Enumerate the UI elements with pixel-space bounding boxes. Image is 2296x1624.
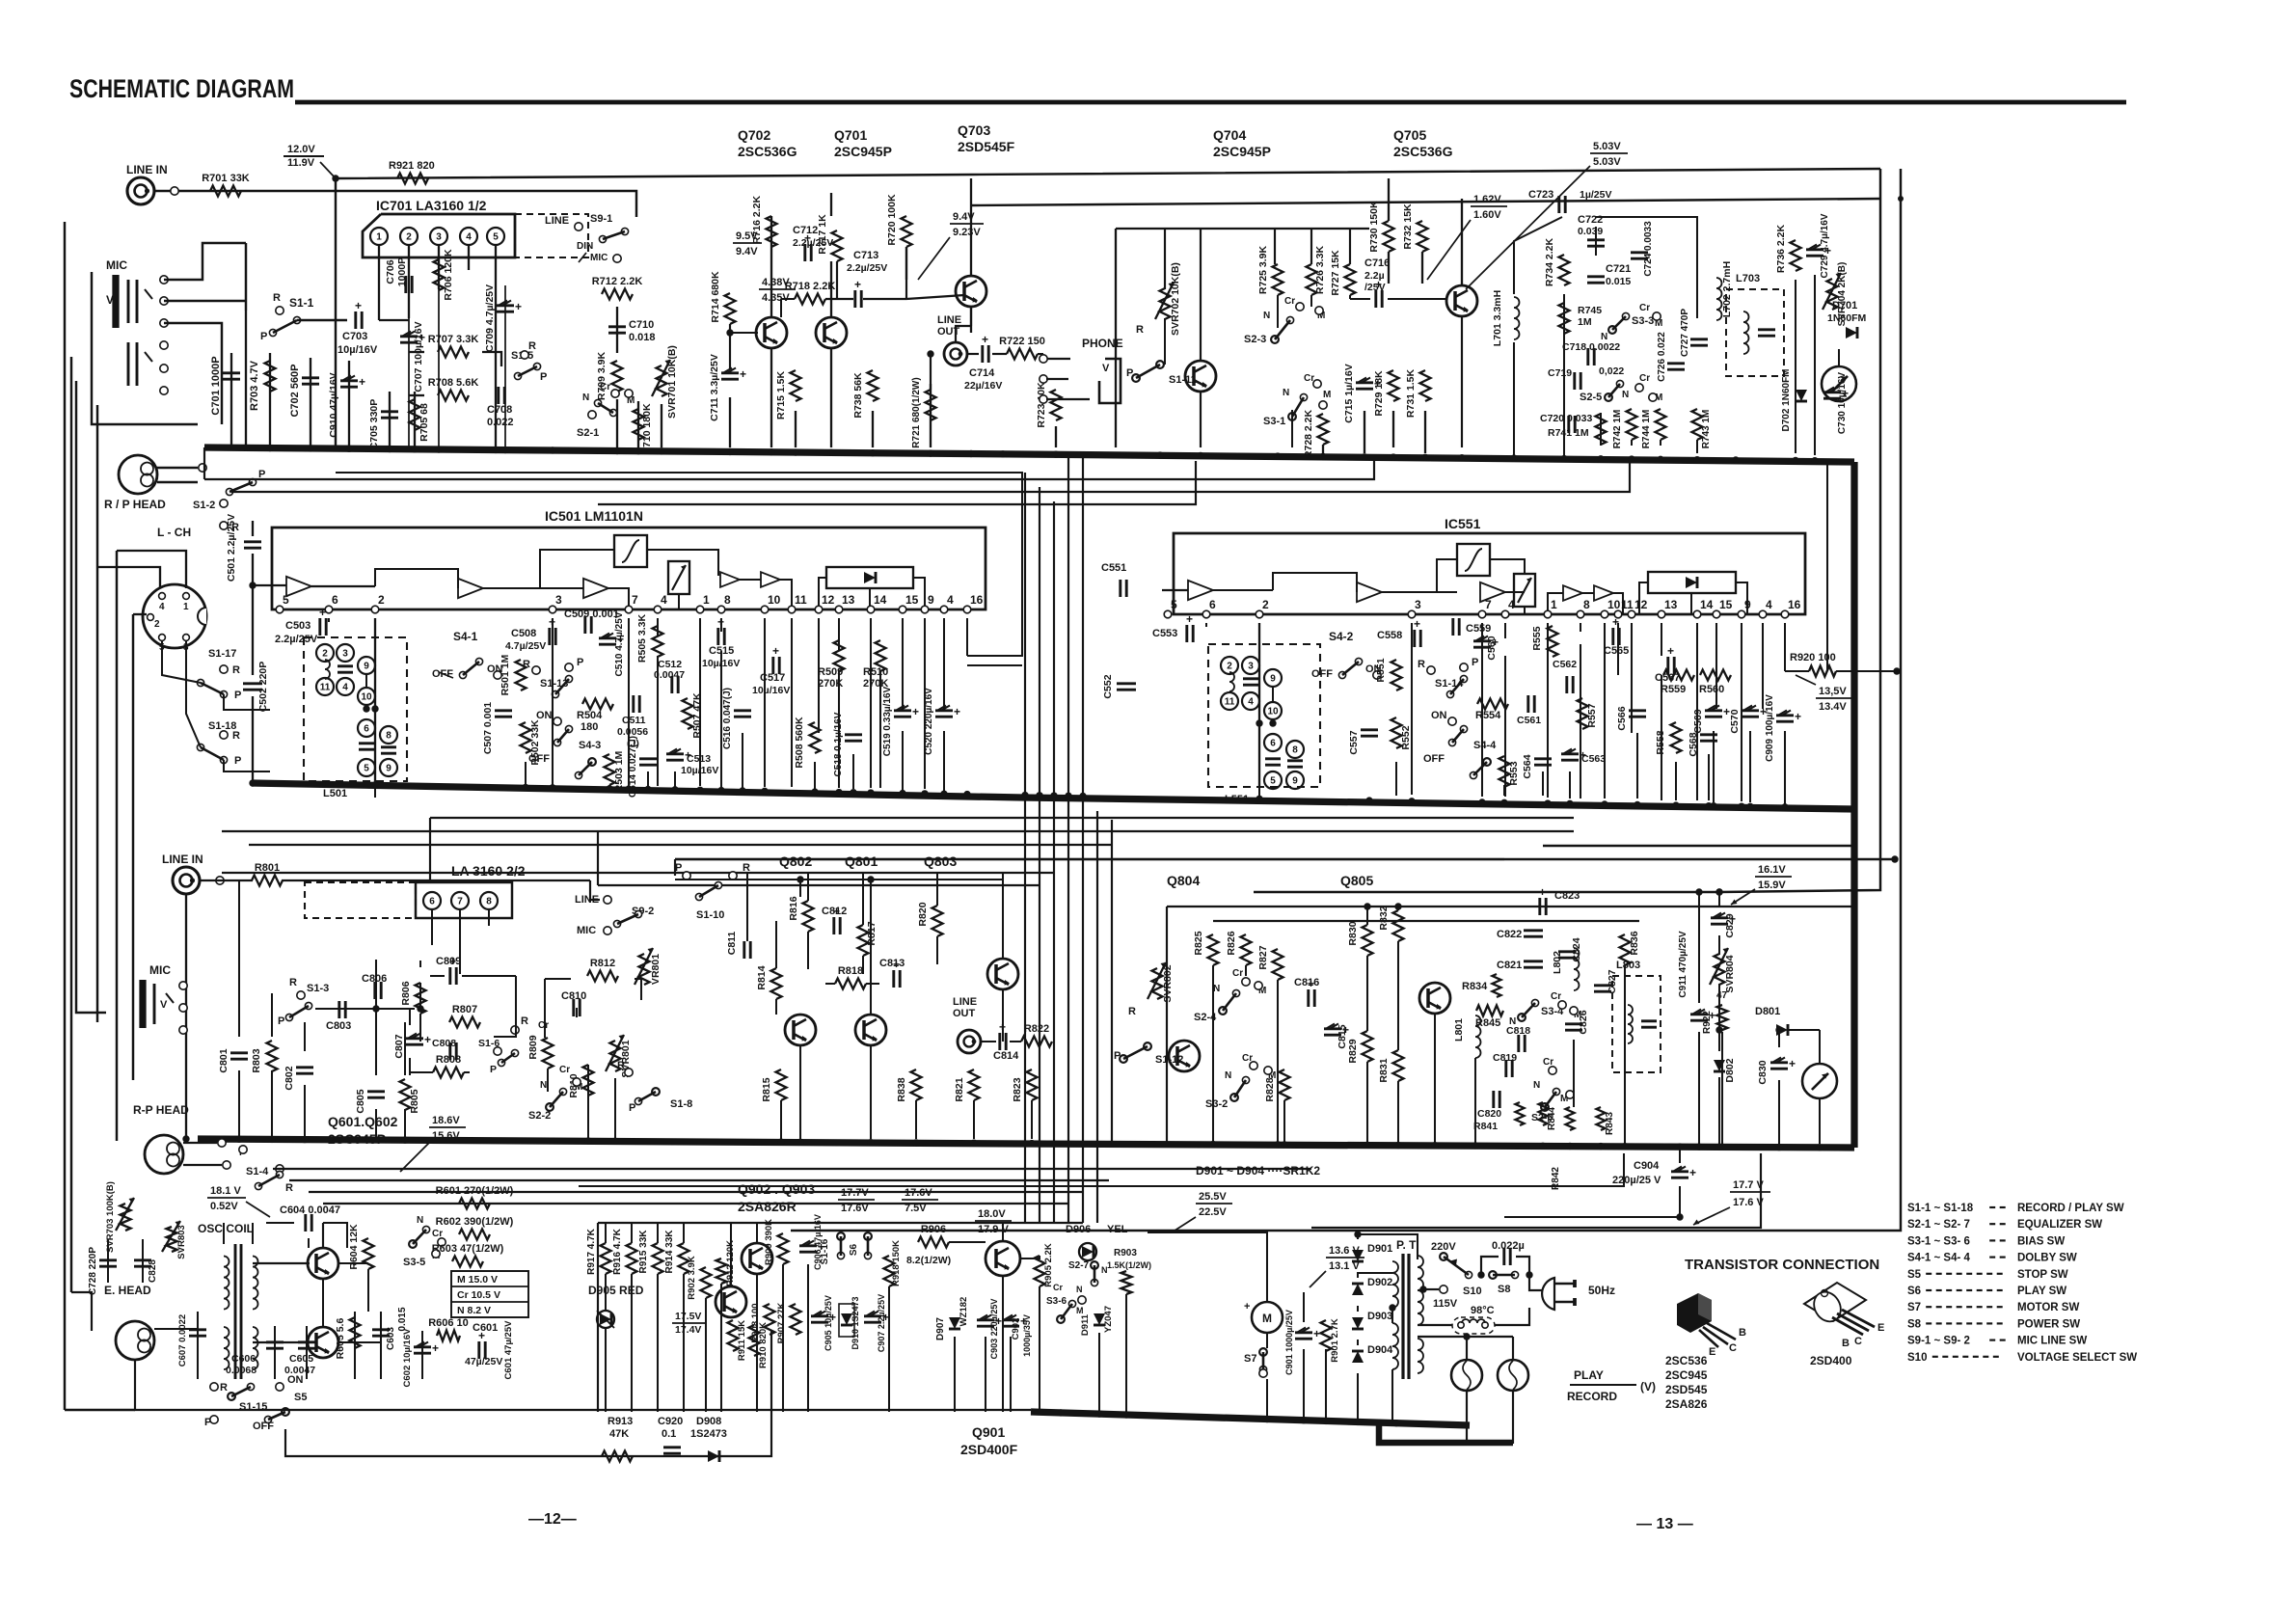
- bus junction dots top: [242, 445, 1818, 465]
- resistor R558: [1655, 722, 1682, 755]
- svg-text:+: +: [1244, 1301, 1250, 1313]
- svg-text:C729 4.7µ/16V: C729 4.7µ/16V: [1820, 213, 1830, 278]
- svg-text:C711 3.3µ/25V: C711 3.3µ/25V: [709, 354, 720, 421]
- svg-text:R901 2.7K: R901 2.7K: [1330, 1318, 1340, 1363]
- switch S3-1: [1263, 373, 1331, 427]
- svg-text:R820: R820: [917, 902, 929, 926]
- svg-text:17.6V: 17.6V: [841, 1203, 869, 1214]
- capacitor C501: [226, 514, 261, 582]
- capacitor C807: [393, 1033, 431, 1059]
- resistor R736: [1775, 224, 1801, 273]
- svg-text:MIC LINE SW: MIC LINE SW: [2017, 1336, 2087, 1347]
- diode D903: [1352, 1311, 1392, 1329]
- svg-text:11: 11: [320, 683, 331, 693]
- pot VR801: [635, 948, 662, 985]
- switch S1-5: [511, 340, 547, 383]
- svg-text:D904: D904: [1367, 1344, 1393, 1356]
- capacitor C560: [1473, 636, 1499, 661]
- svg-text:R836: R836: [1629, 931, 1640, 955]
- svg-text:3: 3: [342, 649, 348, 660]
- svg-text:C562: C562: [1553, 659, 1577, 670]
- wire fuse loop: [1418, 1308, 1529, 1325]
- svg-text:S7: S7: [1244, 1353, 1256, 1365]
- svg-text:0.1: 0.1: [662, 1428, 676, 1440]
- label 17.6V/7.5V: [902, 1187, 938, 1214]
- capacitor C826: [1565, 1010, 1589, 1034]
- svg-text:LINE: LINE: [953, 996, 977, 1008]
- capacitor C806: [362, 973, 387, 999]
- resistor R921: [389, 160, 435, 184]
- svg-text:15: 15: [1719, 598, 1733, 611]
- label 13.5V/13.4V: [1796, 675, 1852, 713]
- svg-text:9: 9: [1744, 598, 1751, 611]
- svg-text:R738 56K: R738 56K: [852, 372, 864, 419]
- svg-text:R823: R823: [1012, 1077, 1023, 1101]
- svg-text:C558: C558: [1377, 630, 1402, 641]
- svg-text:S7: S7: [1907, 1302, 1921, 1313]
- capacitor C705: [368, 399, 398, 450]
- capacitor C517: [752, 644, 790, 696]
- svg-text:1: 1: [703, 593, 710, 607]
- svg-text:V: V: [160, 999, 168, 1011]
- wire main supply bus (top section): [204, 447, 1854, 462]
- IC551 attenuator box: [1514, 574, 1535, 607]
- svg-text:15: 15: [905, 593, 919, 607]
- svg-text:R736 2.2K: R736 2.2K: [1775, 224, 1787, 273]
- svg-text:C516 0.047(J): C516 0.047(J): [722, 688, 733, 749]
- svg-text:R: R: [521, 1015, 528, 1027]
- svg-text:+: +: [982, 333, 988, 346]
- svg-text:5: 5: [493, 232, 499, 243]
- resistor R822: [1021, 1023, 1052, 1047]
- svg-text:C728 220P: C728 220P: [88, 1247, 98, 1295]
- svg-text:OFF: OFF: [1423, 753, 1445, 765]
- DIN connector L: [143, 584, 206, 653]
- resistor R605: [335, 1317, 361, 1359]
- svg-text:Q703: Q703: [958, 122, 990, 138]
- capacitor C507: [482, 702, 512, 754]
- svg-text:R557: R557: [1586, 703, 1598, 727]
- resistor R701: [202, 173, 250, 197]
- svg-text:2: 2: [154, 619, 160, 630]
- svg-text:R831: R831: [1378, 1058, 1390, 1082]
- wire feed y891: [675, 858, 1895, 860]
- switch S1-4: [246, 1165, 293, 1194]
- svg-text:6: 6: [429, 897, 435, 907]
- capacitor C706: [385, 257, 412, 293]
- capacitor C708: [487, 387, 514, 428]
- resistor R845: [1475, 1006, 1503, 1030]
- svg-text:R829: R829: [1347, 1039, 1359, 1063]
- svg-text:S1-16: S1-16: [820, 1238, 830, 1264]
- svg-text:LINE IN: LINE IN: [126, 163, 168, 176]
- svg-text:R606 10: R606 10: [428, 1317, 469, 1329]
- svg-text:2SA826: 2SA826: [1665, 1397, 1708, 1411]
- svg-text:C557: C557: [1348, 730, 1360, 754]
- svg-text:Q805: Q805: [1340, 873, 1373, 888]
- svg-text:0.52V: 0.52V: [210, 1201, 238, 1212]
- svg-text:R: R: [617, 1060, 625, 1071]
- svg-text:C709 4.7µ/25V: C709 4.7µ/25V: [484, 284, 496, 352]
- transistor Q704m: [1185, 361, 1216, 392]
- svg-text:SVR803: SVR803: [176, 1225, 187, 1259]
- svg-text:C811: C811: [726, 932, 738, 956]
- svg-text:2SD400F: 2SD400F: [960, 1442, 1018, 1457]
- svg-text:C823: C823: [1554, 890, 1580, 902]
- capacitor C515: [702, 615, 740, 669]
- svg-text:S1-3: S1-3: [307, 983, 329, 994]
- svg-text:2SC945P: 2SC945P: [834, 144, 892, 159]
- label Q601.Q602: [328, 1114, 398, 1147]
- svg-text:C703: C703: [342, 331, 367, 342]
- svg-text:D911: D911: [1080, 1313, 1091, 1336]
- IC551 box: [1174, 533, 1805, 614]
- IC701 pin 1: [370, 228, 388, 245]
- head E: [116, 1321, 154, 1360]
- svg-text:C904: C904: [1634, 1160, 1660, 1172]
- svg-text:PLAY SW: PLAY SW: [2017, 1286, 2066, 1297]
- wire left border x101: [96, 405, 98, 1022]
- wire q80x feeds: [675, 873, 1021, 1042]
- capacitor C903: [977, 1299, 1002, 1360]
- power transformer: [1392, 1254, 1423, 1379]
- resistor R810: [568, 1065, 594, 1098]
- svg-text:1.62V: 1.62V: [1473, 194, 1501, 205]
- label Q902.Q903: [738, 1181, 815, 1214]
- svg-text:22µ/16V: 22µ/16V: [964, 380, 1002, 392]
- svg-text:ON: ON: [287, 1374, 304, 1386]
- label LINE OUT (R): [953, 996, 977, 1019]
- svg-text:C701 1000P: C701 1000P: [210, 356, 222, 415]
- svg-text:N: N: [1283, 388, 1289, 398]
- capacitor C815: [1324, 1023, 1349, 1049]
- svg-text:17.5V: 17.5V: [675, 1311, 701, 1322]
- mic terminals column: [160, 276, 168, 394]
- capacitor C516: [722, 688, 751, 749]
- svg-text:C911 470µ/25V: C911 470µ/25V: [1678, 931, 1688, 997]
- amp A1 IC551: [1188, 581, 1213, 600]
- svg-text:C606: C606: [231, 1353, 256, 1365]
- svg-text:E: E: [1877, 1322, 1884, 1334]
- wire mid drop x446: [429, 818, 431, 882]
- svg-text:R710 180K: R710 180K: [641, 403, 653, 455]
- capacitor C824: [1558, 937, 1582, 961]
- svg-text:18.1 V: 18.1 V: [210, 1185, 241, 1197]
- label 4.38V/4.35V: [759, 277, 796, 304]
- svg-text:IC551: IC551: [1445, 516, 1481, 531]
- svg-text:R838: R838: [896, 1077, 907, 1101]
- diode D801: [1755, 1006, 1788, 1036]
- capacitor C558: [1377, 617, 1420, 647]
- svg-text:S4-2: S4-2: [1329, 630, 1354, 643]
- label PLAY/RECORD: [1567, 1368, 1656, 1403]
- svg-text:C706: C706: [385, 259, 396, 284]
- wire osc wiring: [108, 880, 1031, 1410]
- transistor Q602m: [308, 1327, 338, 1358]
- svg-text:C723: C723: [1528, 189, 1553, 201]
- diode D908: [690, 1416, 727, 1462]
- svg-text:R714 680K: R714 680K: [710, 271, 721, 323]
- inductor L802: [1552, 948, 1580, 990]
- wire return line y1230: [579, 1153, 1624, 1186]
- wire Q701 base chain: [726, 247, 964, 368]
- capacitor C920: [658, 1416, 683, 1453]
- resistor R601: [436, 1185, 514, 1209]
- svg-text:R805: R805: [409, 1089, 420, 1113]
- label D906 YELLOW: [1066, 1224, 1128, 1260]
- label 220V: [1431, 1241, 1456, 1260]
- svg-text:C559: C559: [1466, 623, 1491, 635]
- svg-text:16: 16: [1788, 598, 1801, 611]
- svg-text:+: +: [1186, 612, 1193, 626]
- wire S1-1 to C703: [246, 243, 347, 320]
- resistor R560: [1699, 670, 1731, 696]
- svg-text:R913: R913: [608, 1416, 633, 1427]
- resistor R555: [1531, 626, 1558, 657]
- resistor R505: [636, 613, 663, 663]
- svg-text:R505 3.3K: R505 3.3K: [636, 613, 648, 663]
- svg-text:S1-8: S1-8: [670, 1098, 692, 1110]
- meter M bottom: [1802, 1064, 1837, 1098]
- capacitor C723: [1528, 189, 1612, 213]
- svg-text:S1-4: S1-4: [246, 1166, 269, 1177]
- wire top right h237 ext: [1115, 228, 1117, 230]
- wire top loop y510: [231, 461, 1630, 492]
- svg-text:1.60V: 1.60V: [1473, 209, 1501, 221]
- svg-text:R602 390(1/2W): R602 390(1/2W): [436, 1216, 514, 1228]
- svg-text:C710: C710: [629, 319, 654, 331]
- label LINE IN (L): [126, 163, 168, 176]
- svg-text:47K: 47K: [609, 1428, 629, 1440]
- svg-text:7: 7: [457, 897, 463, 907]
- mains plug: [1529, 1275, 1575, 1310]
- svg-text:+: +: [1789, 1057, 1796, 1070]
- svg-text:C605: C605: [289, 1353, 313, 1365]
- svg-text:E. HEAD: E. HEAD: [104, 1284, 151, 1297]
- wire R-CH section bus: [198, 1139, 1854, 1148]
- resistor R817: [858, 921, 878, 956]
- svg-text:9: 9: [1270, 674, 1276, 685]
- wire record section wiring: [1213, 892, 1820, 1144]
- wire rch risers: [239, 880, 615, 1139]
- svg-text:C719: C719: [1548, 367, 1572, 379]
- switch S1-16: [820, 1232, 845, 1265]
- amp A3 IC551: [1480, 582, 1505, 602]
- svg-text:R: R: [1128, 1006, 1136, 1017]
- wire mid bundle 1: [430, 817, 1574, 819]
- label Q705: [1393, 127, 1453, 159]
- svg-text:C715 1µ/16V: C715 1µ/16V: [1343, 364, 1355, 423]
- IC501 box: [272, 528, 986, 609]
- switch S1-17: [197, 648, 241, 701]
- resistor R743: [1692, 409, 1713, 448]
- svg-text:L551: L551: [1225, 794, 1249, 805]
- IC701-2 pin 6: [423, 892, 441, 909]
- svg-text:C808: C808: [432, 1038, 456, 1049]
- svg-text:C822: C822: [1497, 929, 1522, 940]
- capacitor C805: [355, 1089, 385, 1113]
- wire vertical x348: [335, 178, 337, 447]
- svg-text:9: 9: [928, 593, 934, 607]
- node junction y891: [1891, 855, 1898, 862]
- L803 dashed box: [1612, 960, 1661, 1072]
- svg-text:R818: R818: [838, 965, 863, 977]
- svg-text:P: P: [234, 755, 241, 767]
- resistor R501: [500, 654, 527, 695]
- svg-text:C508: C508: [511, 628, 536, 639]
- svg-text:2.2µ/25V: 2.2µ/25V: [275, 634, 318, 645]
- svg-text:M: M: [1262, 1312, 1272, 1325]
- svg-text:C503: C503: [285, 620, 311, 632]
- svg-text:SVR701 10K(B): SVR701 10K(B): [666, 345, 678, 419]
- resistor R806: [400, 981, 426, 1014]
- wire center verticals: [1025, 458, 1112, 1223]
- svg-text:RECORD: RECORD: [1567, 1390, 1617, 1403]
- svg-text:N: N: [1622, 390, 1629, 400]
- switch S3-6: [1046, 1283, 1086, 1323]
- svg-text:2SC945: 2SC945: [1665, 1368, 1708, 1382]
- label P.T: [1396, 1238, 1417, 1252]
- svg-text:220V: 220V: [1431, 1241, 1456, 1253]
- svg-text:N: N: [1533, 1080, 1540, 1091]
- wire din harness: [97, 551, 270, 771]
- switch S1-13: [523, 657, 583, 765]
- svg-text:C513: C513: [687, 753, 711, 765]
- svg-text:14: 14: [1700, 598, 1714, 611]
- resistor R816: [788, 896, 814, 932]
- svg-text:OFF: OFF: [253, 1421, 274, 1432]
- resistor R818: [835, 965, 866, 989]
- wire R707 loop: [409, 352, 501, 395]
- svg-text:6: 6: [332, 593, 338, 607]
- svg-text:R510: R510: [863, 666, 888, 678]
- IC501 pins: [276, 593, 983, 613]
- svg-text:1M: 1M: [1578, 316, 1592, 328]
- bus junction dots power: [1057, 1409, 1399, 1426]
- switch S4-3: [575, 740, 601, 779]
- capacitor C552: [1102, 674, 1136, 698]
- svg-text:+: +: [954, 705, 960, 718]
- svg-text:C708: C708: [487, 404, 512, 416]
- resistor R907: [776, 1302, 801, 1343]
- label 98C: [1471, 1305, 1495, 1316]
- svg-text:C802: C802: [284, 1066, 295, 1090]
- svg-text:D702 1N60FM: D702 1N60FM: [1781, 368, 1792, 431]
- capacitor C719: [1548, 365, 1624, 390]
- svg-text:R721 680(1/2W): R721 680(1/2W): [911, 377, 922, 447]
- svg-text:C716: C716: [1364, 257, 1390, 269]
- svg-text:DOLBY SW: DOLBY SW: [2017, 1253, 2077, 1264]
- resistor R725: [1257, 245, 1283, 295]
- resistor R918: [884, 1240, 903, 1286]
- switch S2-1: [577, 382, 635, 439]
- svg-text:P: P: [260, 331, 267, 342]
- svg-text:15.9V: 15.9V: [1758, 880, 1786, 891]
- svg-text:N: N: [1213, 984, 1220, 994]
- svg-text:C722: C722: [1578, 214, 1603, 226]
- capacitor C557: [1348, 730, 1378, 755]
- svg-text:15.6V: 15.6V: [432, 1130, 460, 1142]
- wire Q70x collectors: [771, 178, 971, 447]
- switch S1-12: [1114, 1042, 1183, 1066]
- wire left border x138: [132, 614, 134, 1080]
- svg-text:C601: C601: [473, 1322, 498, 1334]
- svg-text:R701 33K: R701 33K: [202, 173, 250, 184]
- capacitor C711: [709, 354, 746, 421]
- wire mid bundle 5: [222, 872, 1054, 874]
- svg-text:4: 4: [159, 602, 165, 612]
- node junction 1762,925: [1695, 888, 1702, 895]
- resistor R742: [1612, 409, 1637, 448]
- svg-text:C: C: [1854, 1336, 1862, 1347]
- svg-text:SVR702 10K(B): SVR702 10K(B): [1170, 262, 1181, 336]
- transistor Q903m: [716, 1286, 746, 1317]
- svg-text:R: R: [1418, 659, 1425, 670]
- wire lamp bus: [1379, 1424, 1513, 1443]
- capacitor C714: [964, 333, 1002, 392]
- capacitor C906: [799, 1214, 824, 1270]
- label OSC COIL: [198, 1222, 254, 1235]
- svg-text:R504: R504: [577, 710, 603, 721]
- svg-text:S8: S8: [1498, 1284, 1510, 1295]
- L501 dashed box: [304, 637, 407, 799]
- svg-text:3: 3: [1415, 598, 1421, 611]
- wire record top feeds: [1167, 888, 1854, 1144]
- svg-text:R921 820: R921 820: [389, 160, 435, 172]
- capacitor C604: [280, 1204, 340, 1232]
- switch S4-2: [1311, 630, 1382, 680]
- svg-text:0.0068: 0.0068: [226, 1365, 257, 1376]
- svg-text:C812: C812: [822, 906, 847, 917]
- inductor L801: [1453, 1015, 1481, 1058]
- IC701 label: [376, 198, 487, 213]
- svg-text:8: 8: [724, 593, 731, 607]
- capacitor C911: [1678, 931, 1715, 1022]
- capacitor C821: [1462, 960, 1543, 997]
- label 9.4V/9.23V: [918, 211, 984, 280]
- svg-text:R: R: [232, 730, 240, 742]
- amp A5 IC551: [1594, 585, 1613, 601]
- bus junction dots rch: [182, 1135, 1823, 1150]
- svg-text:2: 2: [406, 232, 412, 243]
- capacitor C721: [1587, 263, 1631, 287]
- svg-text:R: R: [1136, 324, 1144, 336]
- capacitor C503: [275, 606, 326, 645]
- svg-text:9: 9: [364, 662, 369, 672]
- node junction x348: [332, 175, 338, 181]
- capacitor C551: [1101, 562, 1126, 597]
- svg-text:Q704: Q704: [1213, 127, 1246, 143]
- label 2SD400: [1810, 1354, 1852, 1367]
- capacitor C902: [1002, 1314, 1032, 1357]
- svg-text:13: 13: [1664, 598, 1678, 611]
- svg-text:2SC536G: 2SC536G: [1393, 144, 1453, 159]
- svg-text:R705 68: R705 68: [419, 403, 430, 442]
- resistor R826: [1226, 931, 1252, 965]
- resistor R731: [1405, 368, 1431, 418]
- resistor R741: [1548, 414, 1607, 445]
- svg-text:14: 14: [874, 593, 887, 607]
- transistor Q703: [956, 276, 986, 307]
- svg-text:C806: C806: [362, 973, 387, 985]
- wire mid drop x700: [674, 859, 676, 876]
- svg-text:S6: S6: [849, 1243, 859, 1256]
- svg-text:L - CH: L - CH: [157, 526, 191, 539]
- svg-text:12: 12: [822, 593, 835, 607]
- resistor R744: [1641, 409, 1666, 448]
- resistor R809: [527, 1020, 554, 1069]
- transistor package 2SD400: [1804, 1283, 1884, 1349]
